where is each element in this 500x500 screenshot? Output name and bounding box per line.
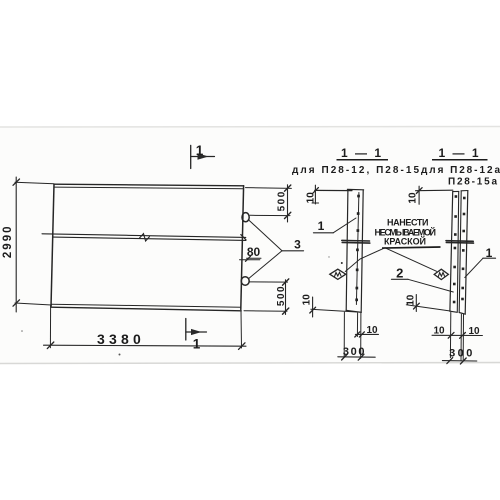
dim 300 A line: [338, 356, 375, 358]
leader 3 bottom line: [249, 251, 282, 279]
svg-text:2: 2: [396, 266, 403, 281]
section A strip bottom: [346, 310, 361, 312]
leader 3 top line: [248, 220, 282, 251]
dim 10 bottom A extension: [311, 309, 361, 312]
scan edge top: [0, 126, 500, 129]
svg-text:НАНЕСТИ: НАНЕСТИ: [387, 218, 429, 228]
specks: [119, 354, 121, 356]
marking diamond A: [330, 269, 346, 279]
svg-text:для П28-12а: для П28-12а: [421, 165, 500, 176]
svg-text:КРАСКОЙ: КРАСКОЙ: [384, 236, 426, 247]
dim 2990 bottom extension: [15, 303, 52, 305]
marking diamond B: [434, 269, 448, 279]
svg-text:10: 10: [433, 325, 445, 336]
svg-text:для П28-12, П28-15: для П28-12, П28-15: [292, 165, 419, 176]
section B rebar dots right strip: [461, 197, 465, 301]
svg-text:10: 10: [408, 192, 419, 204]
svg-text:10: 10: [306, 192, 317, 204]
dim 80 marks: [241, 235, 246, 240]
label 2 leader: [408, 279, 453, 292]
dim 10 cover A line: [355, 333, 378, 335]
dim 500 bottom line: [285, 280, 287, 315]
svg-text:10: 10: [366, 325, 378, 336]
svg-text:10: 10: [468, 326, 480, 337]
section B lower extension lines: [449, 312, 451, 357]
title B underline: [432, 159, 488, 161]
label 1 B underline: [483, 257, 496, 259]
section B break line: [446, 240, 473, 243]
section B left strip right edge: [457, 192, 458, 312]
dim 3380 left extension: [49, 306, 51, 348]
label 1 A underline: [314, 232, 334, 234]
panel left edge: [51, 184, 54, 307]
dim 10 bottom B extension: [406, 305, 450, 311]
dim 500 bottom extensions: [250, 281, 288, 283]
dim 10 bottom B line: [415, 295, 417, 312]
dim 10 top A line: [314, 185, 316, 204]
dim 3380 right extension: [240, 311, 243, 348]
svg-text:500: 500: [277, 190, 288, 211]
dim 500 top line: [287, 185, 289, 222]
svg-text:1 — 1: 1 — 1: [438, 146, 480, 160]
scan edge bottom: [0, 363, 500, 364]
section B rebar dots left strip: [453, 195, 457, 303]
section mark 1 bottom: [185, 319, 187, 341]
label 2 underline: [392, 278, 409, 280]
label 1 A leader: [333, 218, 356, 233]
svg-text:10: 10: [406, 294, 417, 306]
dim 2990 line: [15, 177, 17, 312]
section A strip right edge: [361, 190, 363, 312]
svg-text:80: 80: [247, 245, 261, 259]
lifting loop top: [242, 213, 249, 222]
dim 2990 top extension: [15, 182, 54, 183]
dim 500 top extensions: [246, 187, 292, 190]
section B strip top caps: [453, 190, 459, 192]
panel top edge: [54, 184, 244, 186]
section A rebar dots: [355, 195, 360, 302]
section B left strip left edge: [450, 192, 453, 311]
dim 500 top ticks: [285, 185, 291, 191]
section mark 1 top: [190, 145, 192, 168]
leader to diamond A: [345, 248, 385, 272]
dim 10 bottom A line: [312, 297, 314, 317]
svg-text:2990: 2990: [2, 225, 14, 259]
dim 3380 right tick: [239, 343, 246, 350]
section A top extension: [315, 189, 352, 191]
dim 3380 line: [44, 345, 247, 346]
paper band: [0, 127, 500, 364]
note underline: [382, 246, 441, 249]
dim 300 B line: [442, 360, 476, 362]
svg-text:500: 500: [276, 285, 287, 306]
dim 2990 bottom tick: [13, 300, 20, 306]
svg-text:1: 1: [486, 246, 493, 260]
dim 2990 top tick: [13, 179, 20, 185]
section B right strip right edge: [465, 191, 468, 314]
section A inner bar line: [356, 193, 359, 305]
svg-text:1: 1: [193, 337, 201, 352]
title A underline: [337, 159, 389, 161]
svg-text:300: 300: [449, 348, 475, 360]
leader 3 tail: [282, 250, 304, 252]
section A break line: [342, 239, 370, 242]
svg-text:1 — 1: 1 — 1: [341, 146, 383, 160]
section B top extension: [416, 189, 453, 192]
lifting loop bottom: [241, 277, 249, 285]
section A strip top cap: [347, 188, 363, 190]
svg-text:1: 1: [196, 143, 204, 158]
speck: [341, 262, 343, 264]
section A lower extension lines: [343, 312, 345, 357]
section B right strip left edge: [459, 191, 461, 312]
seam break mark: [140, 234, 150, 241]
svg-text:1: 1: [318, 219, 325, 233]
panel joint seam: [42, 234, 246, 238]
panel right edge: [241, 186, 244, 310]
label 1 B leader: [465, 258, 483, 277]
panel bottom edge: [51, 304, 241, 307]
svg-text:300: 300: [343, 346, 366, 358]
section B strip bottoms: [450, 311, 457, 312]
dim 500 bottom ticks: [283, 279, 289, 285]
dim 10 top B line: [418, 186, 420, 204]
svg-text:10: 10: [302, 294, 313, 306]
section A strip left edge: [346, 191, 348, 311]
leader to diamond B: [385, 248, 437, 271]
svg-text:3380: 3380: [97, 331, 145, 347]
dim 10 10 B line: [432, 334, 482, 336]
dim 3380 left tick: [47, 342, 54, 349]
svg-text:3: 3: [294, 238, 301, 252]
